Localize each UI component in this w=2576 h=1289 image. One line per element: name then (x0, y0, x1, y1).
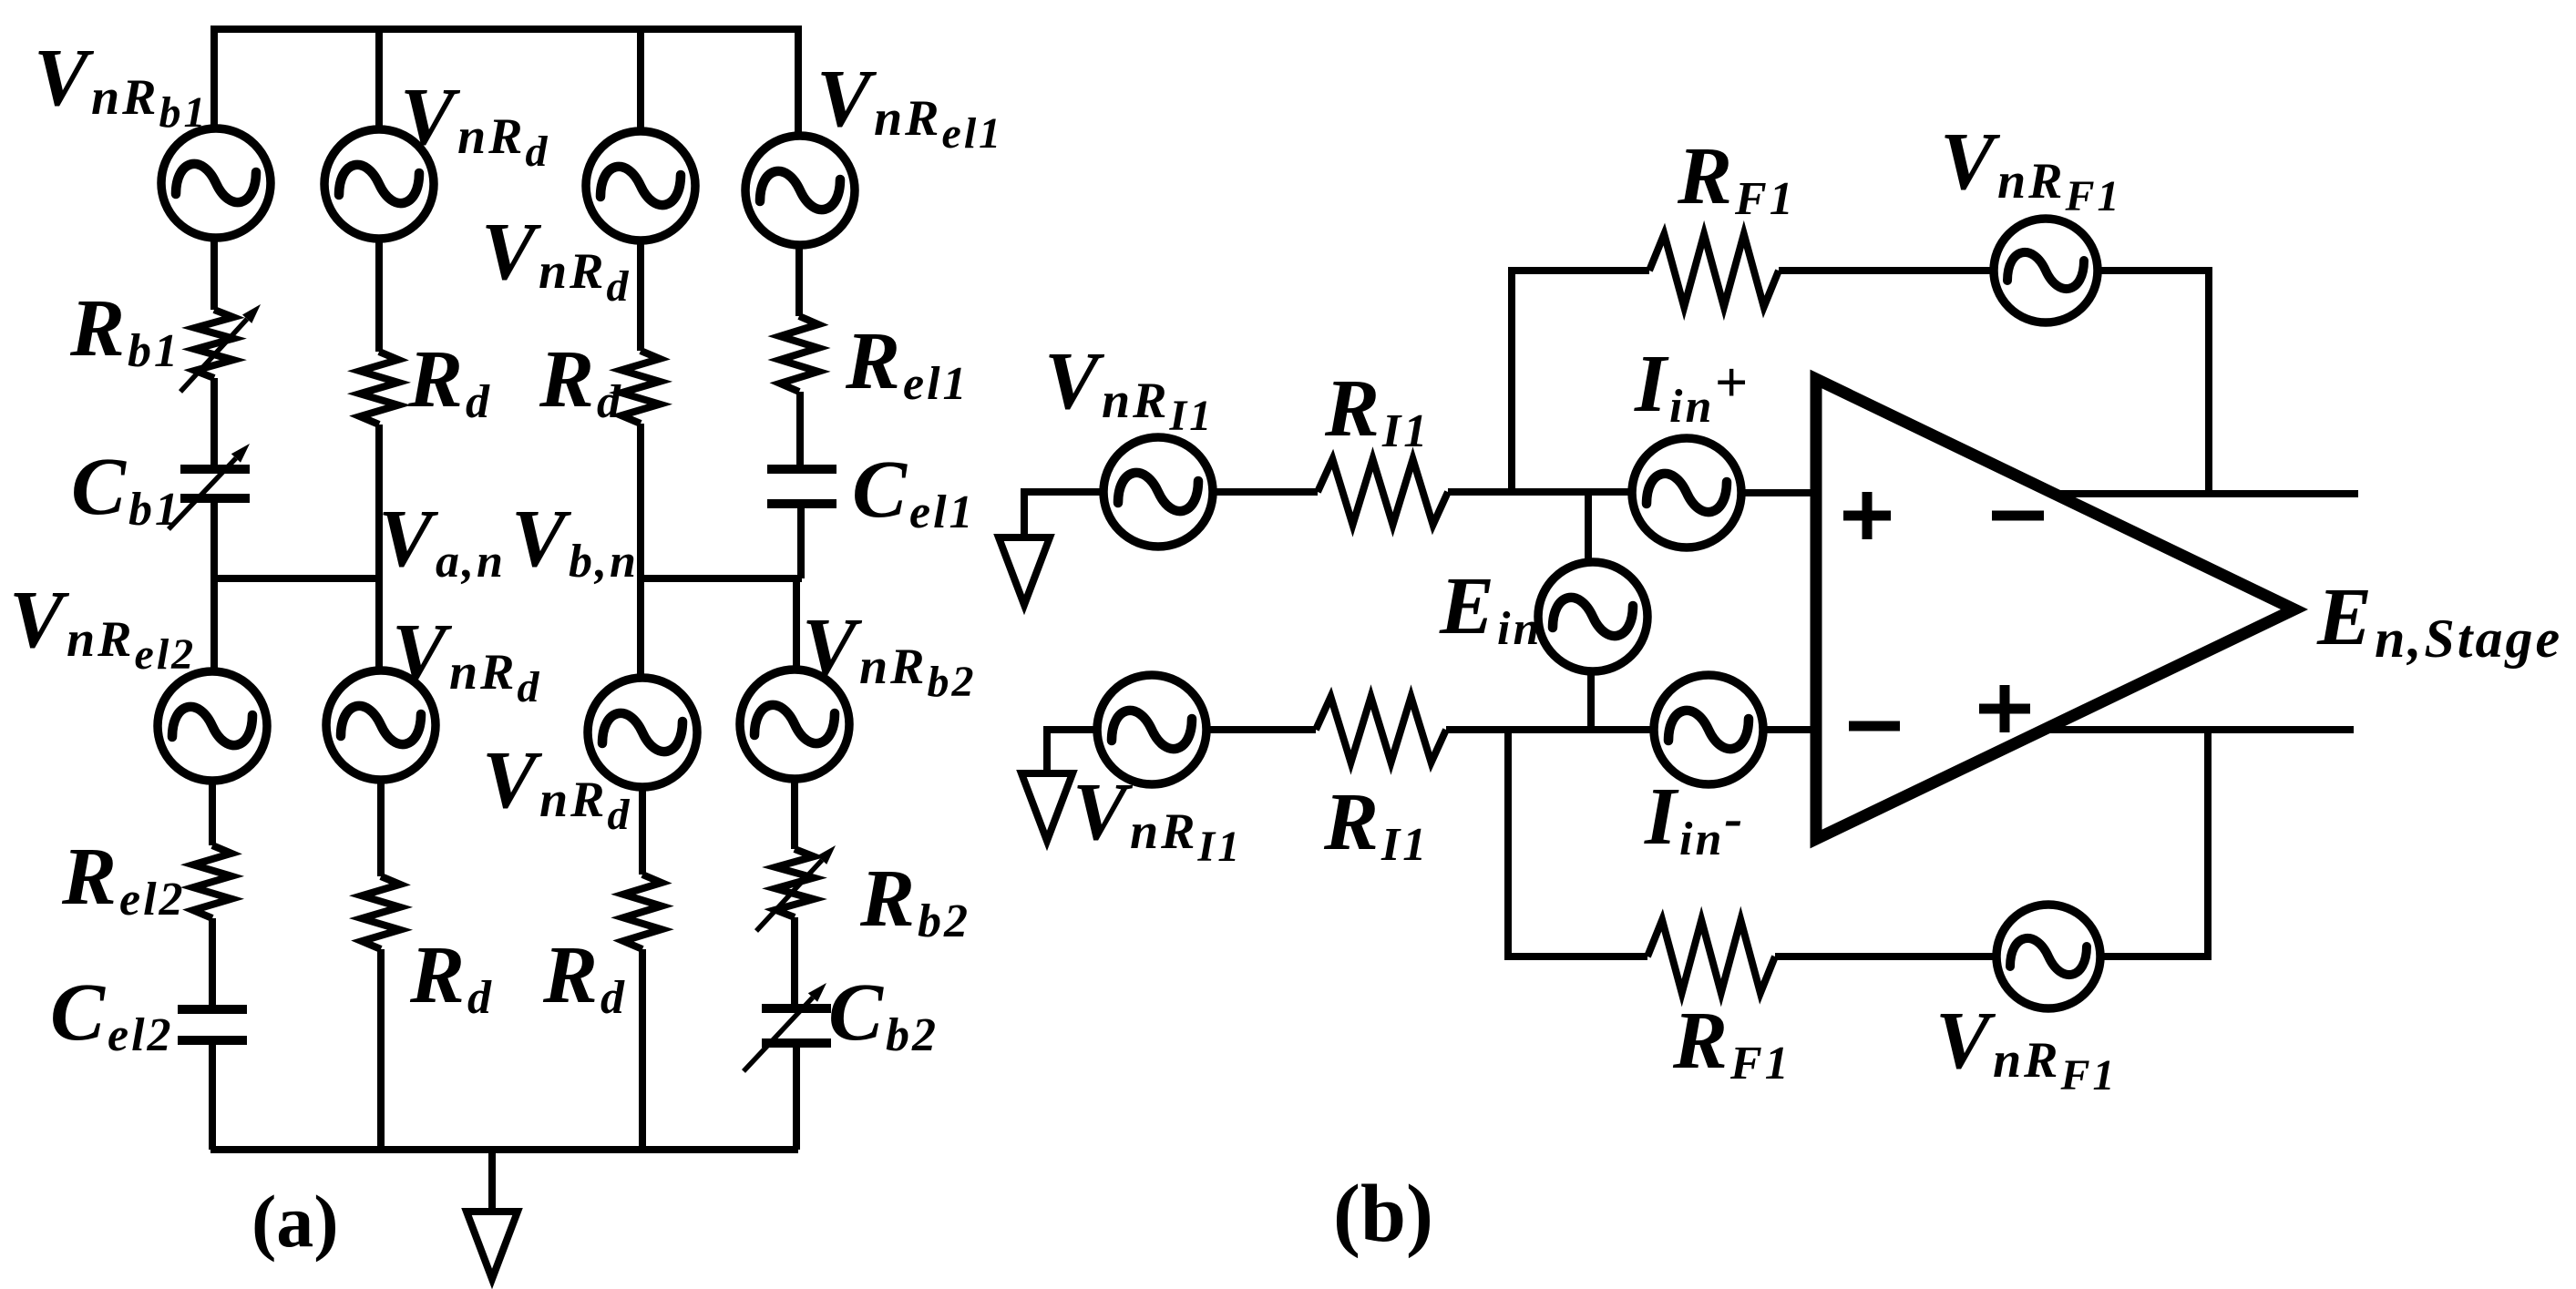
svg-text:Cel1: Cel1 (852, 445, 976, 538)
wire col4 c (797, 504, 805, 578)
AC source VnRel1 (745, 136, 855, 245)
svg-text:Rb2: Rb2 (859, 854, 970, 947)
wire feedback-top h2 (1779, 267, 1996, 274)
wire col3 d (639, 785, 646, 875)
svg-text:VnRel2: VnRel2 (9, 575, 196, 679)
wire b top mid1 (1211, 488, 1318, 496)
wire col2 a (375, 237, 383, 352)
wire col2 d (377, 778, 385, 876)
wire col1 b (210, 378, 218, 470)
svg-text:VnRd: VnRd (392, 608, 542, 711)
wire output+ line (2058, 490, 2358, 497)
wire col2 e (377, 949, 385, 1150)
wire bottom rail (a) (210, 1146, 798, 1153)
resistor Rb2 (variable) (775, 849, 814, 917)
AC source Iin+ (1632, 438, 1741, 547)
svg-text:RI1: RI1 (1323, 777, 1429, 871)
wire col1 c (210, 498, 218, 578)
wire col3 a (637, 239, 644, 351)
svg-text:RF1: RF1 (1672, 996, 1791, 1090)
resistor RI1 (top) (1318, 459, 1448, 525)
ground top (b) (1021, 488, 1028, 539)
resistor Rel2 (193, 845, 231, 918)
wire feedback-bot h3 (2099, 953, 2208, 960)
wire col2 top (375, 26, 383, 132)
wire b bot mid1 (1205, 726, 1316, 733)
op-amp output - sign (top) (1992, 511, 2044, 521)
svg-text:Iin+: Iin+ (1634, 339, 1750, 433)
svg-text:Rd: Rd (539, 334, 623, 428)
svg-text:Rel1: Rel1 (845, 316, 970, 410)
AC source VnRd (bottom col2) (326, 670, 436, 780)
resistor Rd (top col2) (360, 352, 398, 425)
svg-text:Rd: Rd (542, 930, 627, 1024)
ground (a) (488, 1150, 496, 1213)
resistor Rd (bottom col2) (362, 876, 400, 949)
wire top rail (a) (214, 26, 798, 33)
wire col3 c (637, 578, 644, 680)
wire col1 d (210, 578, 218, 674)
wire feedback-bot left vertical (1504, 730, 1512, 960)
wire b top to amp (1740, 489, 1819, 496)
svg-text:RF1: RF1 (1677, 131, 1796, 225)
svg-text:VnRb1: VnRb1 (34, 33, 209, 137)
wire col1 e (209, 779, 216, 845)
AC source VnRF1 (top) (1994, 219, 2098, 322)
ground bottom (b) (1043, 726, 1051, 775)
svg-text:VnRb2: VnRb2 (802, 602, 977, 706)
wire col4 f (791, 917, 798, 1008)
AC source VnRd (bottom col3) (588, 678, 697, 787)
AC source VnRF1 (bottom) (1996, 905, 2100, 1008)
svg-text:Va,n: Va,n (378, 494, 506, 588)
wire col3 e (639, 949, 646, 1150)
wire feedback-bot h1 (1508, 953, 1647, 960)
wire feedback-top h1 (1508, 267, 1649, 274)
AC source VnRd (top col2) (324, 129, 434, 239)
AC source VnRb2 (740, 670, 849, 779)
resistor Rd (top col3) (621, 351, 660, 424)
svg-text:Cb1: Cb1 (71, 442, 181, 536)
op-amp input - sign (bottom) (1849, 721, 1900, 731)
resistor Rel1 (780, 316, 818, 392)
wire col3 top (637, 26, 644, 134)
wire col2 c (375, 578, 383, 674)
wire b bot-left (1043, 726, 1099, 733)
wire mid rail node Va (214, 575, 379, 582)
wire col4 d (793, 578, 800, 672)
AC source VnRel2 (158, 671, 267, 781)
AC source VnRd (top col3) (586, 131, 695, 240)
wire Ein lower stem (1587, 670, 1595, 730)
svg-text:Cel2: Cel2 (50, 967, 174, 1061)
wire feedback-bot h2 (1775, 953, 1997, 960)
svg-text:Vb,n: Vb,n (511, 494, 639, 588)
wire feedback-top h3 (2097, 267, 2209, 274)
resistor RI1 (bottom) (1316, 697, 1446, 762)
wire b bot to amp (1761, 726, 1819, 733)
wire b bot mid2 (1446, 726, 1656, 733)
svg-text:VnRd: VnRd (400, 72, 550, 176)
wire col4 top (795, 26, 802, 138)
AC source VnRI1 (bottom) (1097, 675, 1206, 784)
svg-text:VnRI1: VnRI1 (1044, 336, 1214, 440)
wire col1 top (210, 26, 218, 132)
wire col4 a (795, 243, 803, 316)
wire Ein upper stem (1585, 492, 1592, 565)
op-amp fully-differential stage (1816, 379, 2294, 839)
resistor RF1 (bottom) (1647, 920, 1775, 993)
svg-text:VnRF1: VnRF1 (1940, 117, 2122, 220)
capacitor Cb2 (variable) (762, 1004, 831, 1013)
svg-text:Rd: Rd (409, 930, 494, 1024)
svg-text:Cb2: Cb2 (828, 967, 939, 1061)
wire b top-left (1021, 488, 1105, 496)
svg-text:(a): (a) (251, 1180, 339, 1263)
svg-text:Rel2: Rel2 (61, 832, 186, 926)
wire col4 e (791, 777, 798, 849)
svg-text:Ein: Ein (1439, 561, 1542, 655)
op-amp output + sign (bottom) (1979, 704, 2030, 714)
svg-text:En,Stage: En,Stage (2316, 572, 2562, 669)
AC source VnRb1 (161, 128, 271, 238)
wire col1 a (210, 236, 218, 310)
svg-text:VnRF1: VnRF1 (1935, 996, 2118, 1100)
wire feedback-top left vertical (1508, 271, 1515, 492)
svg-text:VnRel1: VnRel1 (816, 54, 1003, 158)
resistor Rd (bottom col3) (623, 875, 662, 949)
wire col2 b (375, 425, 383, 578)
svg-text:(b): (b) (1333, 1169, 1433, 1259)
wire feedback-top right vertical (2205, 267, 2212, 494)
wire b top mid2 (1448, 488, 1636, 496)
resistor RF1 (top) (1649, 234, 1779, 307)
svg-text:RI1: RI1 (1324, 363, 1430, 457)
resistor Rb1 (variable) (195, 310, 233, 378)
wire col1 g (209, 1040, 216, 1150)
capacitor Cel2 (178, 1005, 247, 1014)
wire col4 b (796, 392, 804, 469)
svg-text:Rd: Rd (407, 334, 492, 428)
wire col1 f (209, 918, 216, 1009)
capacitor Cb1 (variable) (180, 465, 250, 474)
wire col3 b (637, 424, 644, 578)
AC source Ein (1538, 562, 1647, 671)
svg-text:Rb1: Rb1 (69, 283, 180, 377)
wire mid rail node Vb (641, 575, 802, 582)
capacitor Cel1 (767, 465, 836, 474)
AC source Iin- (1654, 675, 1763, 784)
AC source VnRI1 (top) (1103, 437, 1213, 547)
wire output- line (2043, 726, 2354, 733)
op-amp input + sign (1843, 511, 1891, 521)
wire col4 g (793, 1043, 800, 1150)
wire feedback-bot right vertical (2204, 730, 2212, 960)
